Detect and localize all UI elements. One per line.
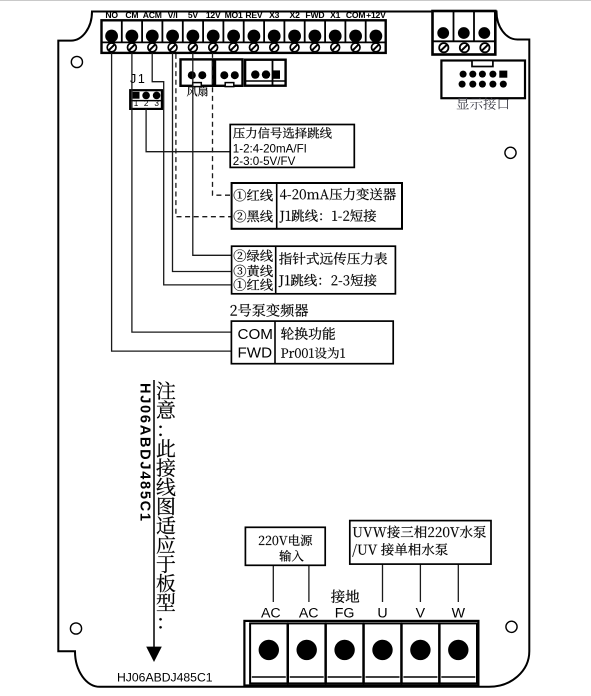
svg-text:HJ06ABDJ485C1: HJ06ABDJ485C1 [137, 383, 153, 523]
terminal divider after ACM [161, 21, 163, 42]
fan connector 3 pins [251, 70, 259, 78]
terminal 5V pin [187, 30, 200, 43]
TB2 pin 2 [458, 27, 470, 39]
mounting hole 2 [505, 147, 516, 158]
box: UVW接三相220V水泵 [350, 521, 491, 565]
J2 pin bottom row 2 [469, 81, 476, 88]
svg-text:X3: X3 [269, 10, 280, 20]
svg-text:12V: 12V [206, 10, 221, 20]
terminal +12V pin [370, 30, 383, 43]
svg-text:2: 2 [144, 99, 149, 108]
fan connector 1 body [181, 59, 213, 85]
box: 220V电源输入 [245, 527, 325, 565]
terminal REV pin [248, 30, 261, 43]
J2 pin bottom row 3 [479, 81, 486, 88]
label ②黑线 [234, 210, 273, 222]
text 轮换功能 [281, 327, 335, 340]
terminal divider after X1 [344, 21, 346, 42]
terminal 12V screw [209, 43, 218, 52]
svg-text:3: 3 [154, 99, 159, 108]
scan edge artifact top [0, 0, 591, 1]
label ③黄线 [234, 265, 273, 277]
svg-text:FWD: FWD [305, 10, 324, 20]
wire 5V to gauge green [193, 53, 232, 255]
fan connector 2 body [215, 59, 243, 85]
svg-text:AC: AC [299, 605, 319, 621]
TB3 hole AC [297, 640, 317, 660]
svg-text:FG: FG [335, 605, 355, 621]
terminal divider after COM [365, 21, 367, 42]
TB2 screw 2 [460, 43, 469, 52]
terminal strip TB1 body [102, 20, 386, 53]
svg-text:NO: NO [105, 10, 118, 20]
terminal NO pin [105, 30, 118, 43]
display connector J2 body [441, 61, 525, 99]
TB3 cell V [402, 623, 439, 683]
terminal X1 screw [331, 43, 340, 52]
box: 4-20mA压力变送器 [232, 183, 402, 229]
fan connector 1 pins [188, 71, 196, 79]
TB3 cell U [364, 623, 401, 683]
terminal divider after FWD [324, 21, 326, 42]
wire ACM to gauge red [152, 53, 231, 285]
TB3 hole U [372, 640, 392, 660]
label ①红线 [234, 189, 273, 201]
svg-text:X1: X1 [330, 10, 341, 20]
svg-text:CM: CM [125, 10, 138, 20]
wire UVW to V [419, 564, 421, 602]
J1 pin 3 [153, 92, 161, 100]
TB3 cell W [440, 623, 477, 683]
terminal V/I screw [168, 43, 177, 52]
board outline [58, 12, 529, 687]
display connector key notch [472, 61, 493, 67]
TB3 hole V [410, 640, 430, 660]
J2 pin top row 4 [489, 71, 496, 78]
J2 pin bottom row 1 [459, 81, 466, 88]
terminal divider after REV [263, 21, 265, 42]
mounting hole 3 [70, 623, 81, 634]
terminal REV screw [250, 43, 259, 52]
mounting hole 1 [71, 56, 82, 67]
svg-text:1-2:4-20mA/FI: 1-2:4-20mA/FI [233, 143, 307, 156]
wire UVW to U [382, 564, 384, 602]
TB3 cell AC [288, 623, 325, 683]
label ①红线 [234, 279, 273, 291]
svg-text:REV: REV [245, 10, 263, 20]
TB3 hole AC [259, 640, 279, 660]
jumper J1 body [130, 90, 162, 109]
terminal X2 pin [288, 30, 301, 43]
wire NO to FWD [112, 53, 232, 351]
svg-text:+12V: +12V [366, 10, 386, 20]
svg-text:ACM: ACM [143, 10, 162, 20]
wire UVW to W [457, 564, 459, 602]
note arrow shaft [153, 380, 155, 648]
bottom terminal block TB3 body [244, 621, 478, 686]
mounting hole 4 [506, 621, 517, 632]
terminal X1 pin [329, 30, 342, 43]
terminal X2 screw [290, 43, 299, 52]
J2 pin 1 (square) [499, 71, 507, 78]
J1 pin 2 [142, 92, 150, 100]
TB3 cell AC [250, 623, 287, 683]
box: 指针式远传压力表 [232, 246, 396, 294]
terminal 12V pin [207, 30, 220, 43]
wire V/I to transmitter black (dashed) [176, 54, 232, 217]
terminal block TB2 (3-pin, top right) body [433, 11, 496, 55]
wire V/I to gauge yellow [173, 53, 232, 272]
terminal divider after CM [141, 21, 143, 42]
TB2 pin 1 [437, 27, 449, 39]
text 指针式远传压力表 [279, 252, 387, 265]
terminal X3 screw [270, 43, 279, 52]
svg-text:MO1: MO1 [225, 10, 243, 20]
terminal divider after NO [121, 21, 123, 42]
terminal +12V screw [372, 43, 381, 52]
text Pr001设为1 [281, 347, 345, 359]
J2 pin top row 1 [460, 71, 467, 78]
terminal divider after 5V [202, 21, 204, 42]
J2 pin top row 3 [479, 71, 486, 78]
TB2 pin 3 [478, 27, 490, 39]
terminal MO1 pin [227, 30, 240, 43]
svg-text:COM: COM [346, 10, 365, 20]
J2 pin bottom row 5 [500, 81, 507, 88]
svg-text:U: U [377, 605, 387, 621]
TB2 screw 3 [480, 43, 489, 52]
svg-text:V: V [416, 605, 426, 621]
label 显示接口 [457, 97, 509, 110]
terminal X3 pin [268, 30, 281, 43]
fan connector 2 notch [225, 83, 234, 87]
box: 压力信号选择跳线 [230, 125, 354, 168]
TB3 cell FG [326, 623, 363, 683]
terminal CM screw [127, 43, 136, 52]
terminal divider after X3 [283, 21, 285, 42]
wire CM to COM [132, 53, 232, 332]
terminal COM pin [349, 30, 362, 43]
TB3 hole W [448, 640, 468, 660]
label ②绿线 [234, 250, 273, 262]
svg-text:AC: AC [261, 605, 281, 621]
J2 pin top row 2 [469, 71, 476, 78]
terminal divider after MO1 [243, 21, 245, 42]
note arrow head [146, 647, 162, 662]
text 2号泵变频器 [231, 304, 309, 317]
svg-text:X2: X2 [290, 10, 301, 20]
wire 220V to AC1 [272, 565, 274, 602]
svg-text:FWD: FWD [238, 344, 273, 361]
terminal ACM pin [146, 30, 159, 43]
terminal divider after V/I [182, 21, 184, 42]
terminal V/I pin [166, 30, 179, 43]
wire J1 pin2 to jumper-select box [146, 109, 230, 152]
terminal NO screw [107, 43, 116, 52]
svg-text:W: W [452, 605, 466, 621]
label 接地 [331, 590, 359, 603]
svg-text:HJ06ABDJ485C1: HJ06ABDJ485C1 [117, 671, 213, 685]
label 风扇 [187, 86, 208, 96]
svg-text:1: 1 [134, 99, 139, 108]
J1 pin 1 (square) [133, 92, 140, 99]
terminal strip inner separator line [102, 41, 386, 43]
svg-text:COM: COM [238, 326, 273, 343]
text J1跳线：2-3短接 [279, 274, 377, 287]
TB3 hole FG [334, 640, 354, 660]
fan connector 2 pins [220, 71, 228, 79]
J2 pin bottom row 4 [489, 81, 496, 88]
vertical note text 注意：此接线图适应于板型： [156, 382, 175, 629]
box: COM/FWD (2号泵变频器) [231, 321, 393, 364]
terminal divider after X2 [304, 21, 306, 42]
text 4-20mA压力变送器 [280, 188, 396, 200]
terminal COM screw [351, 43, 360, 52]
wire 12V to transmitter red (dashed) [213, 53, 232, 195]
TB2 screw 1 [439, 43, 448, 52]
fan connector 3 body [245, 60, 286, 86]
svg-text:V/I: V/I [168, 10, 178, 20]
terminal MO1 screw [229, 43, 238, 52]
terminal CM pin [125, 30, 138, 43]
terminal ACM screw [148, 43, 157, 52]
terminal FWD pin [309, 30, 322, 43]
svg-text:5V: 5V [188, 10, 199, 20]
text J1跳线：1-2短接 [279, 209, 376, 222]
svg-text:2-3:0-5V/FV: 2-3:0-5V/FV [233, 155, 296, 168]
terminal 5V screw [189, 43, 198, 52]
fan connector 1 notch [193, 83, 202, 87]
terminal divider after 12V [222, 21, 224, 42]
terminal FWD screw [311, 43, 320, 52]
wire 220V to AC2 [308, 565, 310, 602]
